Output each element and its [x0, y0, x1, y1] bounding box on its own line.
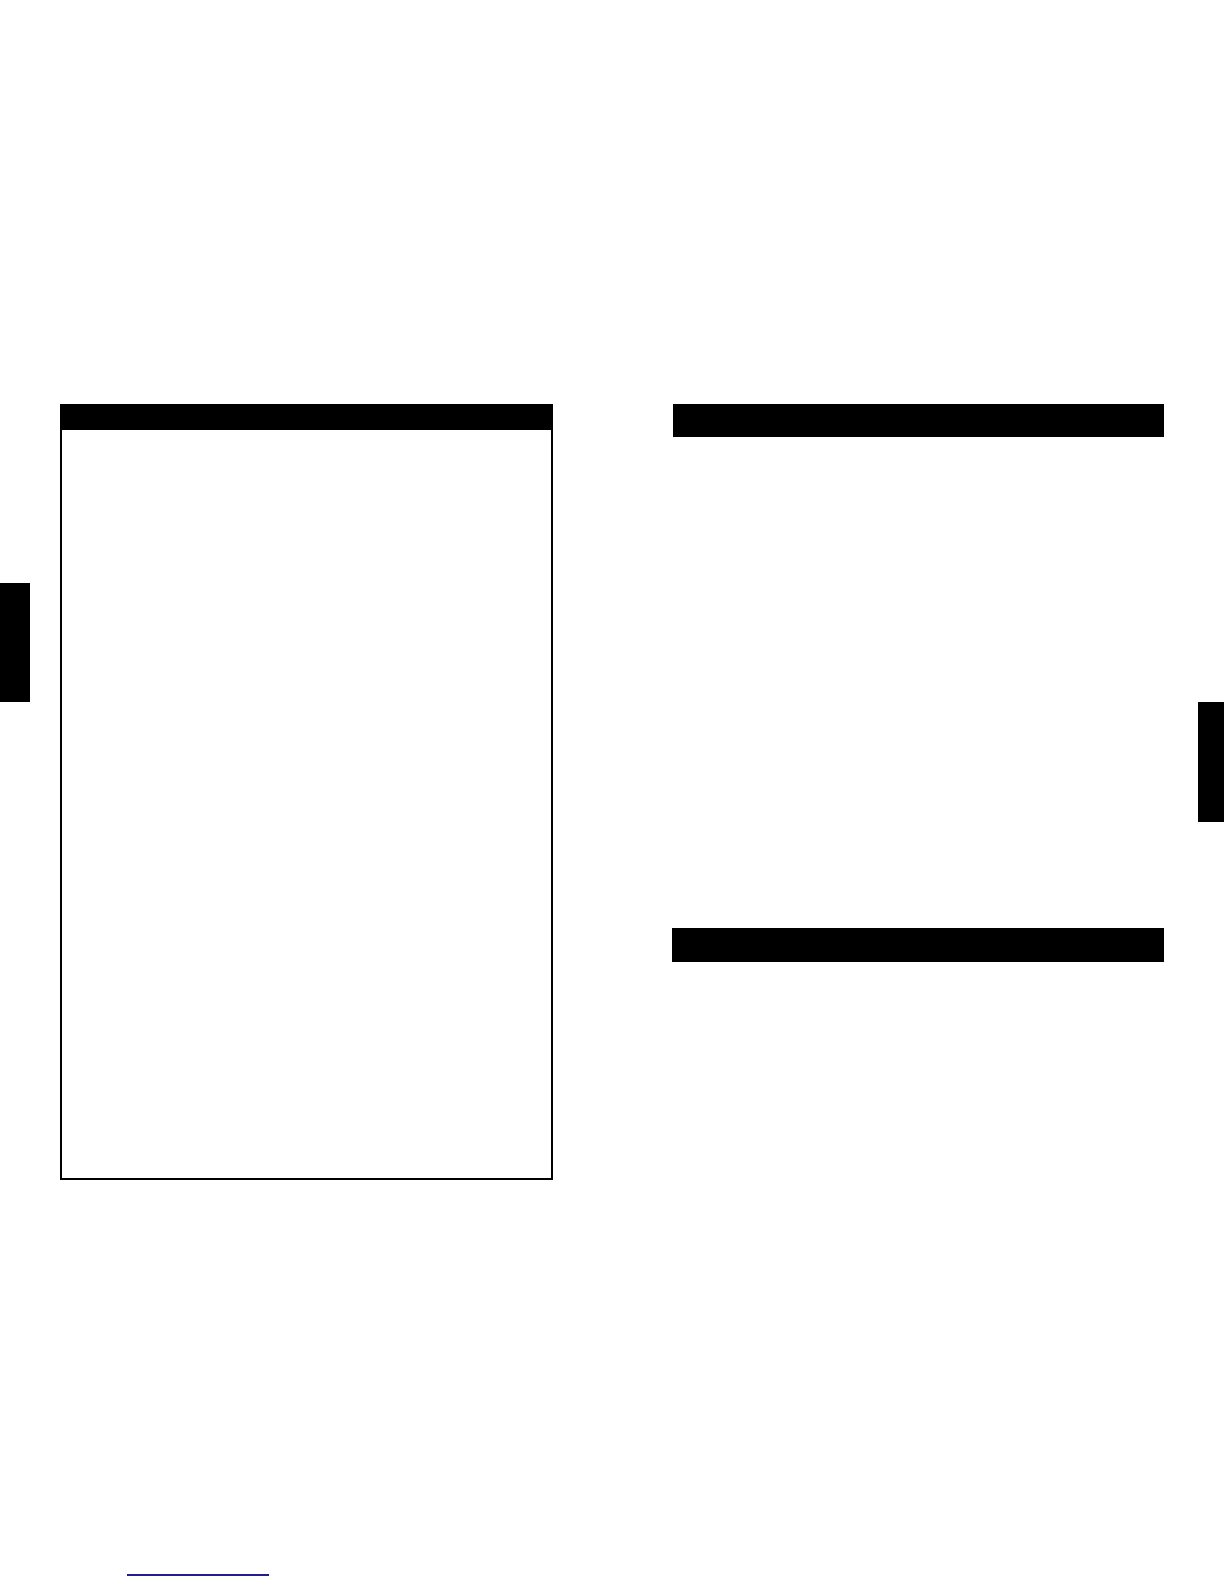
bottom navy underline (hyperlink rule)	[127, 1574, 269, 1576]
right column: second black bar	[672, 928, 1164, 962]
left column: outlined box	[60, 404, 553, 1180]
left column: black title bar of box	[60, 404, 552, 430]
right column: top black bar	[673, 404, 1164, 437]
left edge tab	[0, 583, 30, 702]
right edge tab	[1198, 702, 1224, 822]
